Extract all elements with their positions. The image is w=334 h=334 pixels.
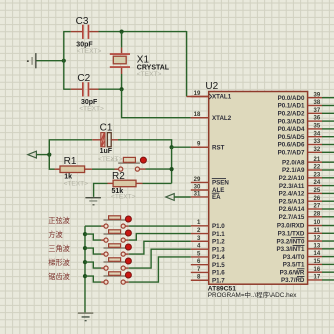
pin name P0.1/AD1 <box>278 103 305 110</box>
svg-text:P0.4/AD4: P0.4/AD4 <box>278 126 305 133</box>
svg-text:P2.4/A12: P2.4/A12 <box>279 191 305 198</box>
wire reset button to RST riser <box>146 168 172 170</box>
pin 29 PSEN stub <box>191 181 209 183</box>
pin name P3.7/RD <box>281 277 305 285</box>
C1 value 1uF <box>100 148 113 155</box>
junction reset button / riser <box>170 167 174 171</box>
ground symbol (button rail) <box>78 312 94 321</box>
junction rail row 5 <box>83 274 87 278</box>
pin name P2.2/A10 <box>279 175 305 182</box>
pin 26 P2.5/A13 stub and wire to edge <box>308 200 334 202</box>
pin name ALE <box>212 187 224 194</box>
wire C2 junction to XTAL2 <box>122 89 191 118</box>
pin number 36 <box>314 116 321 122</box>
svg-text:P1.4: P1.4 <box>212 254 225 261</box>
svg-text:17: 17 <box>314 275 321 281</box>
svg-text:XTAL1: XTAL1 <box>212 94 232 101</box>
pin 16 P3.6/WR stub and wire to edge <box>308 271 334 273</box>
svg-text:RST: RST <box>212 144 225 151</box>
svg-text:XTAL2: XTAL2 <box>212 115 232 122</box>
crystal X1 <box>110 32 130 90</box>
pin 27 P2.6/A14 stub and wire to edge <box>308 208 334 210</box>
svg-text:36: 36 <box>314 116 321 122</box>
svg-text:<>: <> <box>111 157 119 164</box>
label C2 <box>77 73 90 84</box>
svg-text:29: 29 <box>194 177 201 183</box>
pin 39 P0.0/AD0 stub and wire to edge <box>308 97 334 99</box>
pin number 39 <box>314 92 321 98</box>
pin name P2.0/A8 <box>282 159 305 166</box>
pin 34 P0.5/AD5 stub and wire to edge <box>308 136 334 138</box>
pin number 16 <box>314 267 321 273</box>
pin number 35 <box>314 124 321 130</box>
svg-text:P3.0/RXD: P3.0/RXD <box>277 223 305 230</box>
svg-text:P1.0: P1.0 <box>212 223 225 230</box>
R2 value 51k <box>112 188 124 195</box>
pin 31 EA stub <box>191 196 209 198</box>
pin 32 P0.7/AD7 stub and wire to edge <box>308 151 334 153</box>
pin number 30 <box>194 184 201 190</box>
label C3 <box>76 16 89 27</box>
wire supply node up to C1 <box>49 140 92 155</box>
wire rail jog to button 3 <box>85 248 101 254</box>
pin 38 P0.1/AD1 stub and wire to edge <box>308 105 334 107</box>
svg-text:<TEXT>: <TEXT> <box>64 180 89 187</box>
svg-text:P1.5: P1.5 <box>212 262 225 269</box>
svg-text:C3: C3 <box>76 16 89 27</box>
wire into XTAL1 pin 19 <box>187 96 209 98</box>
reset button actuator ball <box>140 157 146 163</box>
pin name P0.0/AD0 <box>278 95 305 102</box>
wire EA arrow to pin 31 <box>174 196 191 198</box>
svg-text:P2.3/A11: P2.3/A11 <box>279 183 305 190</box>
svg-text:R2: R2 <box>112 171 125 182</box>
pin number 7 <box>197 267 201 273</box>
R1 text placeholder <box>64 180 89 187</box>
svg-text:三角波: 三角波 <box>48 244 70 253</box>
svg-text:P3.1/TXD: P3.1/TXD <box>278 230 305 237</box>
svg-text:C2: C2 <box>77 73 90 84</box>
pin name P3.6/WR <box>280 269 305 277</box>
svg-text:P3.6/WR: P3.6/WR <box>280 269 305 276</box>
push button SW1 <box>101 216 129 228</box>
push button SW5 <box>101 272 129 284</box>
svg-text:P1.7: P1.7 <box>212 277 225 284</box>
pin name P1.1 <box>212 231 225 238</box>
pin number 22 <box>314 165 321 171</box>
svg-text:<TEXT>: <TEXT> <box>111 194 136 201</box>
svg-text:PSEN: PSEN <box>212 180 229 187</box>
svg-text:PROGRAM=中..\程序\ADC.hex: PROGRAM=中..\程序\ADC.hex <box>208 290 297 299</box>
pin number 28 <box>314 211 321 217</box>
C2 text placeholder <box>79 105 104 112</box>
label 正弦波 <box>48 216 70 225</box>
svg-text:P2.6/A14: P2.6/A14 <box>279 206 305 213</box>
pin name P0.2/AD2 <box>278 111 305 118</box>
svg-text:P0.2/AD2: P0.2/AD2 <box>278 111 305 118</box>
svg-text:24: 24 <box>314 180 321 186</box>
junction rail row 2 <box>83 232 87 236</box>
pin 6 P1.5 stub <box>191 264 209 266</box>
pin name P0.4/AD4 <box>278 126 305 133</box>
pin 3 P1.2 stub <box>191 240 209 242</box>
pin name P1.3 <box>212 246 225 253</box>
ground terminal (rotated) top-left <box>27 53 37 68</box>
wire rail jog to button 2 <box>85 234 101 240</box>
wire button 4 to pin P1.3 <box>129 249 191 268</box>
svg-text:39: 39 <box>314 92 321 98</box>
pin name P2.5/A13 <box>279 198 305 205</box>
junction rail row 3 <box>83 246 87 250</box>
pin number 13 <box>314 243 321 249</box>
label R2 <box>112 171 125 182</box>
C1 text placeholder <box>98 156 123 163</box>
pin number 17 <box>314 275 321 281</box>
pin name P2.7/A15 <box>279 214 305 221</box>
pin number 4 <box>197 244 201 250</box>
pin 28 P2.7/A15 stub and wire to edge <box>308 216 334 218</box>
pin number 12 <box>314 236 321 242</box>
svg-text:P2.7/A15: P2.7/A15 <box>279 214 305 221</box>
push button SW3 <box>101 244 129 256</box>
svg-text:P1.1: P1.1 <box>212 231 225 238</box>
pin number 19 <box>194 91 201 97</box>
C3 value 30pF <box>76 41 93 48</box>
svg-text:R1: R1 <box>64 156 77 167</box>
label X1 <box>137 54 150 65</box>
pin number 37 <box>314 108 321 114</box>
svg-text:P0.3/AD3: P0.3/AD3 <box>278 118 305 125</box>
svg-text:P2.0/A8: P2.0/A8 <box>282 159 305 166</box>
pin number 23 <box>314 172 321 178</box>
R2 text placeholder <box>111 194 136 201</box>
label R1 <box>64 156 77 167</box>
pin name P3.2/INT0 <box>277 238 305 246</box>
pin name P0.5/AD5 <box>278 134 305 141</box>
junction crystal top <box>120 30 124 34</box>
pin 11 P3.1/TXD stub and wire to edge <box>308 232 334 234</box>
pin number 11 <box>314 228 321 234</box>
pin name PSEN <box>212 179 230 187</box>
wire button 2 to pin P1.1 <box>129 234 191 241</box>
button SW1 actuator ball <box>125 216 131 222</box>
pin 9 RST stub <box>191 146 209 148</box>
terminal arrow at EA pin <box>166 194 174 201</box>
pin number 1 <box>197 220 201 226</box>
button SW2 actuator ball <box>125 230 131 236</box>
wire RST riser down to reset button and R2 <box>171 147 173 183</box>
pin name P1.2 <box>212 239 225 246</box>
svg-text:30: 30 <box>194 184 201 190</box>
capacitor C1 (electrolytic) <box>92 133 118 147</box>
svg-text:P2.1/A9: P2.1/A9 <box>282 167 305 174</box>
svg-text:<TEXT>: <TEXT> <box>77 48 102 55</box>
svg-text:方波: 方波 <box>48 230 62 239</box>
svg-text:13: 13 <box>314 243 321 249</box>
wire RST node to chip <box>172 146 191 148</box>
pin 30 ALE stub <box>191 189 209 191</box>
C2 value 30pF <box>81 99 98 106</box>
pin 19 XTAL1 stub <box>191 96 209 98</box>
pin name P3.4/T0 <box>283 254 305 261</box>
svg-text:18: 18 <box>194 112 201 118</box>
wire button 5 to pin P1.4 <box>129 257 191 282</box>
pin number 14 <box>314 251 321 257</box>
pin name RST <box>212 144 225 151</box>
pin name XTAL2 <box>212 115 232 122</box>
reset push button <box>118 157 145 171</box>
U2 program property <box>208 290 297 299</box>
svg-text:P0.1/AD1: P0.1/AD1 <box>278 103 305 110</box>
svg-text:C1: C1 <box>100 123 113 134</box>
button SW5 actuator ball <box>125 272 131 278</box>
button SW4 actuator ball <box>125 258 131 264</box>
button SW3 actuator ball <box>125 244 131 250</box>
svg-text:37: 37 <box>314 108 321 114</box>
wire button 1 to pin P1.0 <box>129 225 191 227</box>
svg-text:25: 25 <box>314 188 321 194</box>
svg-text:P3.2/INT0: P3.2/INT0 <box>277 238 305 245</box>
svg-text:26: 26 <box>314 196 321 202</box>
svg-text:31: 31 <box>194 191 201 197</box>
X1 text placeholder <box>137 71 162 78</box>
pin 35 P0.4/AD4 stub and wire to edge <box>308 128 334 130</box>
pin 14 P3.4/T0 stub and wire to edge <box>308 256 334 258</box>
svg-text:14: 14 <box>314 251 321 257</box>
svg-text:P0.6/AD6: P0.6/AD6 <box>278 142 305 149</box>
pin 21 P2.0/A8 stub and wire to edge <box>308 161 334 163</box>
pin name P2.4/A12 <box>279 191 305 198</box>
pin number 9 <box>197 142 201 148</box>
svg-text:19: 19 <box>194 91 201 97</box>
pin number 29 <box>194 177 201 183</box>
svg-text:P1.2: P1.2 <box>212 239 225 246</box>
pin number 21 <box>314 157 321 163</box>
svg-text:P2.2/A10: P2.2/A10 <box>279 175 305 182</box>
pin name P2.1/A9 <box>282 167 305 174</box>
wire R2 to ground <box>94 183 108 197</box>
pin name P1.5 <box>212 262 225 269</box>
pin number 8 <box>197 275 201 281</box>
op IC U2 AT89C51 body <box>209 92 308 285</box>
svg-text:U2: U2 <box>205 81 218 92</box>
pin 15 P3.5/T1 stub and wire to edge <box>308 263 334 265</box>
pin name P1.0 <box>212 223 225 230</box>
pin 13 P3.3/INT1 stub and wire to edge <box>308 248 334 250</box>
pin name P0.6/AD6 <box>278 142 305 149</box>
svg-text:35: 35 <box>314 124 321 130</box>
svg-text:P3.5/T1: P3.5/T1 <box>283 262 305 269</box>
pin 33 P0.6/AD6 stub and wire to edge <box>308 144 334 146</box>
pin number 38 <box>314 100 321 106</box>
pin number 2 <box>197 228 201 234</box>
pin name P1.7 <box>212 277 225 284</box>
capacitor C2 <box>63 82 121 96</box>
pin 36 P0.3/AD3 stub and wire to edge <box>308 120 334 122</box>
svg-text:15: 15 <box>314 259 321 265</box>
wire ground terminal to left rail <box>37 60 64 62</box>
pin 37 P0.2/AD2 stub and wire to edge <box>308 112 334 114</box>
svg-text:P0.0/AD0: P0.0/AD0 <box>278 95 305 102</box>
wire C1 to RST riser <box>118 140 172 147</box>
pin 5 P1.4 stub <box>191 256 209 258</box>
label U2 <box>205 81 218 92</box>
svg-text:12: 12 <box>314 236 321 242</box>
wire rail jog to button 4 <box>85 262 101 268</box>
label 锯齿波 <box>48 272 70 281</box>
pin name P0.7/AD7 <box>278 150 305 157</box>
pin number 24 <box>314 180 321 186</box>
svg-text:P3.4/T0: P3.4/T0 <box>283 254 305 261</box>
wire rail to button 1 <box>85 225 101 227</box>
capacitor C3 <box>63 25 98 39</box>
wire button 3 to pin P1.2 <box>129 241 191 254</box>
svg-text:P3.7/RD: P3.7/RD <box>281 277 305 284</box>
wire into RST pin 9 <box>191 146 209 148</box>
pin 23 P2.2/A10 stub and wire to edge <box>308 177 334 179</box>
svg-text:P3.3/INT1: P3.3/INT1 <box>277 246 305 253</box>
pin 18 XTAL2 stub <box>191 117 209 119</box>
svg-text:10: 10 <box>314 220 321 226</box>
pin name P2.6/A14 <box>279 206 305 213</box>
svg-text:P0.7/AD7: P0.7/AD7 <box>278 150 305 157</box>
pin number 31 <box>194 191 201 197</box>
C3 text placeholder <box>77 48 102 55</box>
R1 value 1k <box>64 174 72 181</box>
pin 4 P1.3 stub <box>191 248 209 250</box>
wire into XTAL2 pin 18 <box>191 117 209 119</box>
push button SW2 <box>101 230 129 242</box>
label C1 <box>100 123 113 134</box>
svg-text:P2.5/A13: P2.5/A13 <box>279 198 305 205</box>
svg-text:27: 27 <box>314 204 321 210</box>
pin name P3.0/RXD <box>277 223 305 230</box>
svg-text:梯形波: 梯形波 <box>48 258 70 267</box>
reset button text placeholder <box>111 157 119 164</box>
svg-text:<TEXT>: <TEXT> <box>137 71 162 78</box>
pin name P0.3/AD3 <box>278 118 305 125</box>
junction left rail / ground <box>62 59 66 63</box>
pin name P2.3/A11 <box>279 183 305 190</box>
svg-text:32: 32 <box>314 147 321 153</box>
svg-text:11: 11 <box>314 228 321 234</box>
svg-text:34: 34 <box>314 131 321 137</box>
svg-text:<TEXT>: <TEXT> <box>79 105 104 112</box>
wire left rail (C3 left to C2 left) <box>63 32 65 90</box>
pin number 3 <box>197 236 201 242</box>
pin number 18 <box>194 112 201 118</box>
label 梯形波 <box>48 258 70 267</box>
svg-text:16: 16 <box>314 267 321 273</box>
pin 8 P1.7 stub <box>191 279 209 281</box>
wire arrow to reset node <box>36 154 49 156</box>
pin number 10 <box>314 220 321 226</box>
junction reset supply node <box>47 153 51 157</box>
pin 17 P3.7/RD stub and wire to edge <box>308 279 334 281</box>
wire C3 to XTAL1 riser <box>99 31 187 33</box>
X1 value CRYSTAL <box>137 65 170 72</box>
svg-text:锯齿波: 锯齿波 <box>48 272 70 281</box>
power terminal arrow (reset supply) <box>28 151 37 158</box>
svg-text:23: 23 <box>314 172 321 178</box>
svg-text:38: 38 <box>314 100 321 106</box>
push button SW4 <box>101 258 129 270</box>
pin number 33 <box>314 139 321 145</box>
svg-text:22: 22 <box>314 165 321 171</box>
pin 24 P2.3/A11 stub and wire to edge <box>308 185 334 187</box>
label 三角波 <box>48 244 70 253</box>
wire XTAL1 riser down <box>186 31 188 97</box>
pin number 6 <box>197 259 201 265</box>
pin number 26 <box>314 196 321 202</box>
wire rail jog to button 5 <box>85 276 101 282</box>
pin 10 P3.0/RXD stub and wire to edge <box>308 225 334 227</box>
pin 25 P2.4/A12 stub and wire to edge <box>308 192 334 194</box>
label 方波 <box>48 230 62 239</box>
svg-text:EA: EA <box>212 194 221 201</box>
svg-text:33: 33 <box>314 139 321 145</box>
pin name P1.4 <box>212 254 225 261</box>
pin name P3.3/INT1 <box>277 245 305 253</box>
svg-text:1uF: 1uF <box>100 148 113 155</box>
svg-text:P1.6: P1.6 <box>212 270 225 277</box>
pin name EA <box>212 193 221 201</box>
pin name P3.5/T1 <box>283 262 305 269</box>
wire button rail vertical <box>84 226 86 312</box>
pin number 15 <box>314 259 321 265</box>
pin name P1.6 <box>212 270 225 277</box>
junction rail row 4 <box>83 260 87 264</box>
junction RST node <box>170 145 174 149</box>
pin name P3.1/TXD <box>278 230 305 237</box>
pin 2 P1.1 stub <box>191 233 209 235</box>
ground symbol (reset divider) <box>85 197 101 205</box>
resistor R1 <box>49 155 118 173</box>
svg-text:正弦波: 正弦波 <box>48 216 70 225</box>
pin number 5 <box>197 251 201 257</box>
U2 value AT89C51 <box>208 285 236 292</box>
pin 22 P2.1/A9 stub and wire to edge <box>308 169 334 171</box>
pin number 34 <box>314 131 321 137</box>
pin 12 P3.2/INT0 stub and wire to edge <box>308 240 334 242</box>
pin number 25 <box>314 188 321 194</box>
svg-text:P0.5/AD5: P0.5/AD5 <box>278 134 305 141</box>
svg-text:P1.3: P1.3 <box>212 246 225 253</box>
svg-text:21: 21 <box>314 157 321 163</box>
pin name XTAL1 <box>209 94 231 101</box>
pin number 32 <box>314 147 321 153</box>
pin number 27 <box>314 204 321 210</box>
pin 7 P1.6 stub <box>191 271 209 273</box>
pin 1 P1.0 stub <box>191 225 209 227</box>
svg-text:28: 28 <box>314 211 321 217</box>
resistor R2 <box>108 180 172 187</box>
junction crystal bottom / C2 <box>120 87 124 91</box>
